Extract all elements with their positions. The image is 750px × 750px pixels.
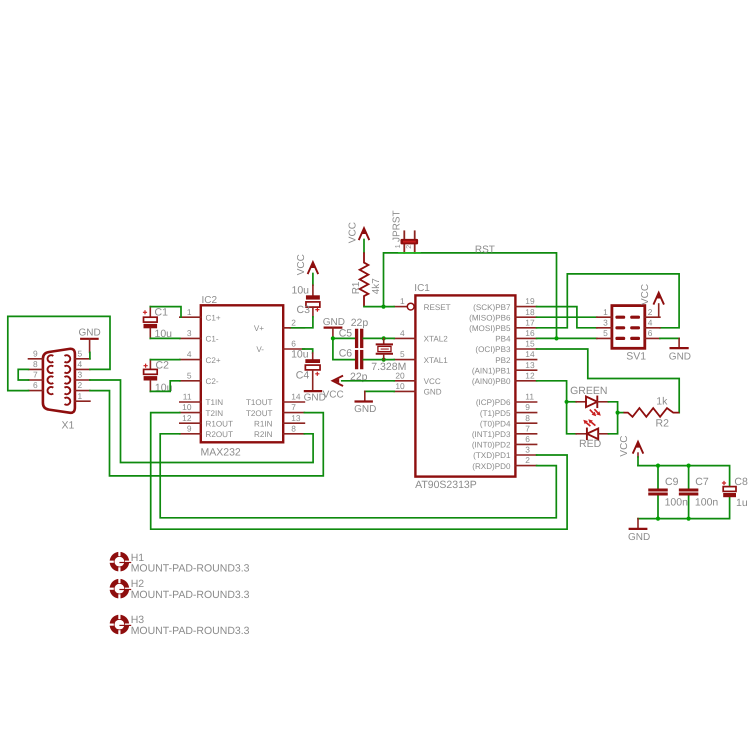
svg-text:GND: GND xyxy=(424,388,442,397)
svg-text:6: 6 xyxy=(525,434,530,444)
X1 pin 4 xyxy=(75,368,90,370)
svg-text:3: 3 xyxy=(78,370,83,380)
svg-text:10u: 10u xyxy=(291,349,309,361)
svg-text:GREEN: GREEN xyxy=(570,385,607,397)
wire R1 bottom to IC1 RESET pin xyxy=(364,306,394,308)
svg-text:GND: GND xyxy=(323,317,345,328)
RED emission arrows xyxy=(586,423,590,426)
X1 pin 3 xyxy=(75,379,90,381)
SV1 left pins 1,3,5 xyxy=(597,316,612,318)
svg-text:1: 1 xyxy=(603,307,608,317)
svg-text:C2-: C2- xyxy=(206,377,219,386)
wire C1 top to IC2 pin1 xyxy=(150,307,181,318)
wire PB5 MOSI loop to SV1 pin4 xyxy=(537,274,680,328)
GREEN emission arrows xyxy=(590,410,593,414)
svg-text:3: 3 xyxy=(187,328,192,338)
svg-text:C2: C2 xyxy=(156,359,170,371)
X1 pin 8 xyxy=(29,368,43,370)
IC1 left pins RESET XTAL2 XTAL1 VCC GND xyxy=(394,306,407,308)
svg-text:RST: RST xyxy=(475,244,495,255)
capacitor C3 xyxy=(312,285,314,295)
svg-text:5: 5 xyxy=(78,348,83,358)
svg-text:1u: 1u xyxy=(736,497,748,509)
svg-text:C1-: C1- xyxy=(206,335,219,344)
wire RST net vertical and horizontal to SV1 column xyxy=(384,253,557,339)
svg-text:GND: GND xyxy=(669,351,691,362)
svg-text:7: 7 xyxy=(291,402,296,412)
svg-text:19: 19 xyxy=(525,296,535,306)
svg-text:7: 7 xyxy=(33,370,38,380)
wire PB7 SCK to SV1 pin3 xyxy=(537,307,597,328)
wire GND to C5 and down to C6 xyxy=(333,338,355,359)
svg-text:C3: C3 xyxy=(297,304,311,316)
svg-text:R1OUT: R1OUT xyxy=(206,419,233,428)
svg-text:VCC: VCC xyxy=(323,390,344,401)
svg-text:C6: C6 xyxy=(339,348,353,360)
wire C2 top to IC2 pin4 xyxy=(150,359,179,361)
svg-text:(ICP)PD6: (ICP)PD6 xyxy=(476,398,511,407)
svg-text:GND: GND xyxy=(354,404,376,415)
microcontroller IC1 AT90S2313P box xyxy=(415,295,515,476)
svg-text:100n: 100n xyxy=(665,496,689,508)
IC2 right pins 2,6,14,7,13,8 xyxy=(283,327,304,329)
svg-text:V+: V+ xyxy=(254,324,264,333)
svg-text:IC1: IC1 xyxy=(414,283,430,294)
mount pad H3 xyxy=(109,614,132,636)
capacitor C4 xyxy=(312,353,314,359)
svg-text:16: 16 xyxy=(525,328,535,338)
svg-text:(SCK)PB7: (SCK)PB7 xyxy=(473,303,511,312)
ground GND below C4 xyxy=(305,390,321,392)
svg-text:1: 1 xyxy=(400,296,405,306)
svg-text:(AIN1)PB1: (AIN1)PB1 xyxy=(472,366,511,375)
wire X1 pin2 to T2OUT xyxy=(90,391,323,476)
wire X1 pin5 to GND xyxy=(89,352,91,358)
node junction crystal top xyxy=(382,336,386,340)
svg-text:3: 3 xyxy=(525,445,530,455)
svg-text:T1IN: T1IN xyxy=(206,398,224,407)
svg-text:VCC: VCC xyxy=(619,435,630,456)
svg-text:R2IN: R2IN xyxy=(254,430,273,439)
wire C3 bottom to IC2 pin2 V+ xyxy=(290,317,313,328)
svg-text:10: 10 xyxy=(182,402,192,412)
node junction LED right / R2 xyxy=(616,411,620,415)
svg-text:C7: C7 xyxy=(695,476,709,488)
svg-text:(T0)PD4: (T0)PD4 xyxy=(480,419,511,428)
X1 pin 6 xyxy=(29,390,43,392)
svg-text:X1: X1 xyxy=(62,419,75,431)
resistor R2 1k xyxy=(618,412,624,414)
svg-text:100n: 100n xyxy=(695,496,719,508)
svg-text:13: 13 xyxy=(291,413,301,423)
svg-text:6: 6 xyxy=(648,328,653,338)
wire X1 pin3 to R2IN xyxy=(90,380,313,463)
svg-text:5: 5 xyxy=(603,328,608,338)
wire bright contact under jumper xyxy=(399,252,420,254)
svg-text:C2+: C2+ xyxy=(206,356,221,365)
X1 socket hooks left column xyxy=(48,355,54,362)
svg-text:6: 6 xyxy=(291,339,296,349)
X1 pin 9 xyxy=(29,358,43,360)
connector SV1 box xyxy=(612,306,645,349)
capacitor C9 100n xyxy=(657,466,659,519)
wire loop X1 pin8 to pin7 xyxy=(18,369,28,380)
node junction GND/C5 xyxy=(331,336,335,340)
svg-text:T2OUT: T2OUT xyxy=(246,409,273,418)
svg-text:6: 6 xyxy=(33,380,38,390)
svg-text:C5: C5 xyxy=(339,327,353,339)
svg-text:14: 14 xyxy=(525,349,535,359)
svg-text:(INT0)PD2: (INT0)PD2 xyxy=(472,441,511,450)
svg-text:9: 9 xyxy=(525,402,530,412)
svg-text:VCC: VCC xyxy=(296,254,307,275)
capacitor C7 100n xyxy=(688,466,690,519)
wire R2OUT to IC1 RXD xyxy=(160,434,556,518)
svg-text:2: 2 xyxy=(406,245,413,249)
svg-text:R2: R2 xyxy=(656,418,670,430)
svg-text:2: 2 xyxy=(525,455,530,465)
svg-text:(TXD)PD1: (TXD)PD1 xyxy=(473,451,511,460)
svg-text:4: 4 xyxy=(187,349,192,359)
svg-text:17: 17 xyxy=(525,317,535,327)
X1 socket hooks right column xyxy=(65,355,71,362)
svg-text:MAX232: MAX232 xyxy=(201,447,241,459)
SV1 right pins 2,4,6 xyxy=(645,316,660,318)
node junction LED left xyxy=(565,400,569,404)
svg-text:9: 9 xyxy=(33,348,38,358)
svg-text:4: 4 xyxy=(648,317,653,327)
svg-text:(MOSI)PB5: (MOSI)PB5 xyxy=(469,324,511,333)
svg-text:GND: GND xyxy=(79,328,101,339)
svg-text:MOUNT-PAD-ROUND3.3: MOUNT-PAD-ROUND3.3 xyxy=(131,625,250,637)
wire bottom rail xyxy=(638,497,730,518)
svg-text:MOUNT-PAD-ROUND3.3: MOUNT-PAD-ROUND3.3 xyxy=(131,563,250,575)
svg-text:4: 4 xyxy=(78,359,83,369)
wire loop X1 pin4 to pin6 xyxy=(8,316,110,390)
svg-text:10: 10 xyxy=(395,381,405,391)
svg-text:2: 2 xyxy=(291,317,296,327)
svg-text:(RXD)PD0: (RXD)PD0 xyxy=(472,462,511,471)
svg-text:4: 4 xyxy=(400,328,405,338)
svg-text:12: 12 xyxy=(525,370,535,380)
svg-text:3: 3 xyxy=(603,317,608,327)
svg-text:8: 8 xyxy=(525,413,530,423)
svg-text:(T1)PD5: (T1)PD5 xyxy=(480,409,511,418)
svg-text:RESET: RESET xyxy=(424,303,451,312)
wire PB0 to LED left side xyxy=(537,381,577,434)
wire junction to GREEN anode xyxy=(567,401,577,403)
wire C2 bottom jog to IC2 pin5 xyxy=(150,381,179,392)
svg-text:14: 14 xyxy=(291,392,301,402)
svg-text:C1: C1 xyxy=(155,307,169,319)
svg-text:7.328M: 7.328M xyxy=(371,361,406,373)
wire C1 bottom to IC2 pin3 xyxy=(150,337,180,339)
wire C5 to XTAL2 xyxy=(363,337,394,339)
svg-text:T1OUT: T1OUT xyxy=(246,398,273,407)
IC1 right pins PB7..PB0 PD6..PD0 xyxy=(515,306,536,308)
svg-text:2: 2 xyxy=(648,307,653,317)
svg-text:XTAL2: XTAL2 xyxy=(424,335,449,344)
ground GND at SV1 pin6 xyxy=(660,337,679,339)
svg-text:5: 5 xyxy=(400,349,405,359)
node junction R1/RST xyxy=(381,305,385,309)
svg-text:(OCI)PB3: (OCI)PB3 xyxy=(475,345,511,354)
wire PB4 to SV1 pin5 xyxy=(537,337,597,339)
svg-text:PB2: PB2 xyxy=(495,356,511,365)
capacitor C2 xyxy=(149,360,151,370)
svg-text:R1: R1 xyxy=(351,281,362,294)
svg-text:15: 15 xyxy=(525,339,535,349)
op-amp IC2 MAX232 box xyxy=(201,305,283,442)
mount pad H1 xyxy=(109,551,132,573)
capacitor C8 1u xyxy=(723,487,736,492)
node junction crystal bottom xyxy=(382,358,386,362)
svg-text:7: 7 xyxy=(525,423,530,433)
mount pad H2 xyxy=(109,578,132,600)
svg-text:(AIN0)PB0: (AIN0)PB0 xyxy=(472,377,511,386)
wire PB6 MISO to SV1 pin1 xyxy=(537,316,597,318)
svg-text:VCC: VCC xyxy=(347,222,358,243)
wire IC2 pin6 V- to C4 xyxy=(303,349,313,353)
capacitor C1 xyxy=(149,307,151,318)
node junction RST/PB4 xyxy=(554,336,558,340)
svg-text:13: 13 xyxy=(525,360,535,370)
crystal Q1 7.328M xyxy=(383,338,385,343)
connector X1 body xyxy=(43,349,75,413)
svg-text:11: 11 xyxy=(525,392,534,402)
X1 pin 7 xyxy=(29,379,43,381)
svg-text:2: 2 xyxy=(78,380,83,390)
svg-text:VCC: VCC xyxy=(424,377,441,386)
SV1 pads xyxy=(615,316,625,319)
svg-text:JPRST: JPRST xyxy=(391,210,402,242)
svg-text:VCC: VCC xyxy=(640,284,651,305)
wire VCC rail top xyxy=(638,466,730,487)
svg-text:10u: 10u xyxy=(292,285,310,297)
svg-text:GND: GND xyxy=(628,532,650,543)
wire T2IN to IC1 TXD xyxy=(151,413,567,530)
svg-text:22p: 22p xyxy=(351,317,369,329)
resistor R1 4k7 xyxy=(360,252,369,306)
svg-text:AT90S2313P: AT90S2313P xyxy=(415,479,477,491)
IC2 left pins 1,3,4,5,11,10,12,9 xyxy=(180,316,201,318)
svg-text:C1+: C1+ xyxy=(206,313,221,322)
svg-text:12: 12 xyxy=(182,413,192,423)
svg-text:4k7: 4k7 xyxy=(371,278,382,295)
svg-text:R2OUT: R2OUT xyxy=(206,430,233,439)
svg-text:IC2: IC2 xyxy=(202,295,218,306)
svg-text:1: 1 xyxy=(78,391,83,401)
svg-text:8: 8 xyxy=(33,359,38,369)
svg-text:8: 8 xyxy=(291,423,296,433)
ground GND at IC1 pin10 xyxy=(365,390,394,392)
svg-text:1k: 1k xyxy=(656,395,668,407)
X1 pin 2 xyxy=(75,390,90,392)
svg-text:5: 5 xyxy=(187,370,192,380)
svg-text:T2IN: T2IN xyxy=(206,409,224,418)
capacitor C6 22p xyxy=(355,352,358,368)
svg-text:SV1: SV1 xyxy=(626,350,646,362)
svg-text:V-: V- xyxy=(256,345,264,354)
wire LED right side xyxy=(609,402,618,434)
ground GND below rail xyxy=(637,519,639,529)
svg-text:(INT1)PD3: (INT1)PD3 xyxy=(472,430,511,439)
X1 pin 1 xyxy=(75,400,90,402)
svg-text:MOUNT-PAD-ROUND3.3: MOUNT-PAD-ROUND3.3 xyxy=(131,589,250,601)
svg-text:1: 1 xyxy=(395,244,402,248)
svg-text:R1IN: R1IN xyxy=(254,419,273,428)
svg-text:11: 11 xyxy=(183,392,192,402)
X1 pin 5 xyxy=(75,358,90,360)
svg-text:XTAL1: XTAL1 xyxy=(424,356,449,365)
svg-text:C4: C4 xyxy=(296,369,310,381)
svg-text:PB4: PB4 xyxy=(495,335,511,344)
svg-text:9: 9 xyxy=(187,423,192,433)
capacitor C5 22p xyxy=(355,330,358,346)
svg-text:18: 18 xyxy=(525,307,535,317)
svg-text:(MISO)PB6: (MISO)PB6 xyxy=(469,313,511,322)
wire C6 to XTAL1 xyxy=(363,359,394,361)
svg-text:1: 1 xyxy=(187,307,192,317)
svg-text:C8: C8 xyxy=(734,476,748,488)
wire PB3 to R2 right xyxy=(537,349,680,413)
svg-text:C9: C9 xyxy=(665,476,679,488)
